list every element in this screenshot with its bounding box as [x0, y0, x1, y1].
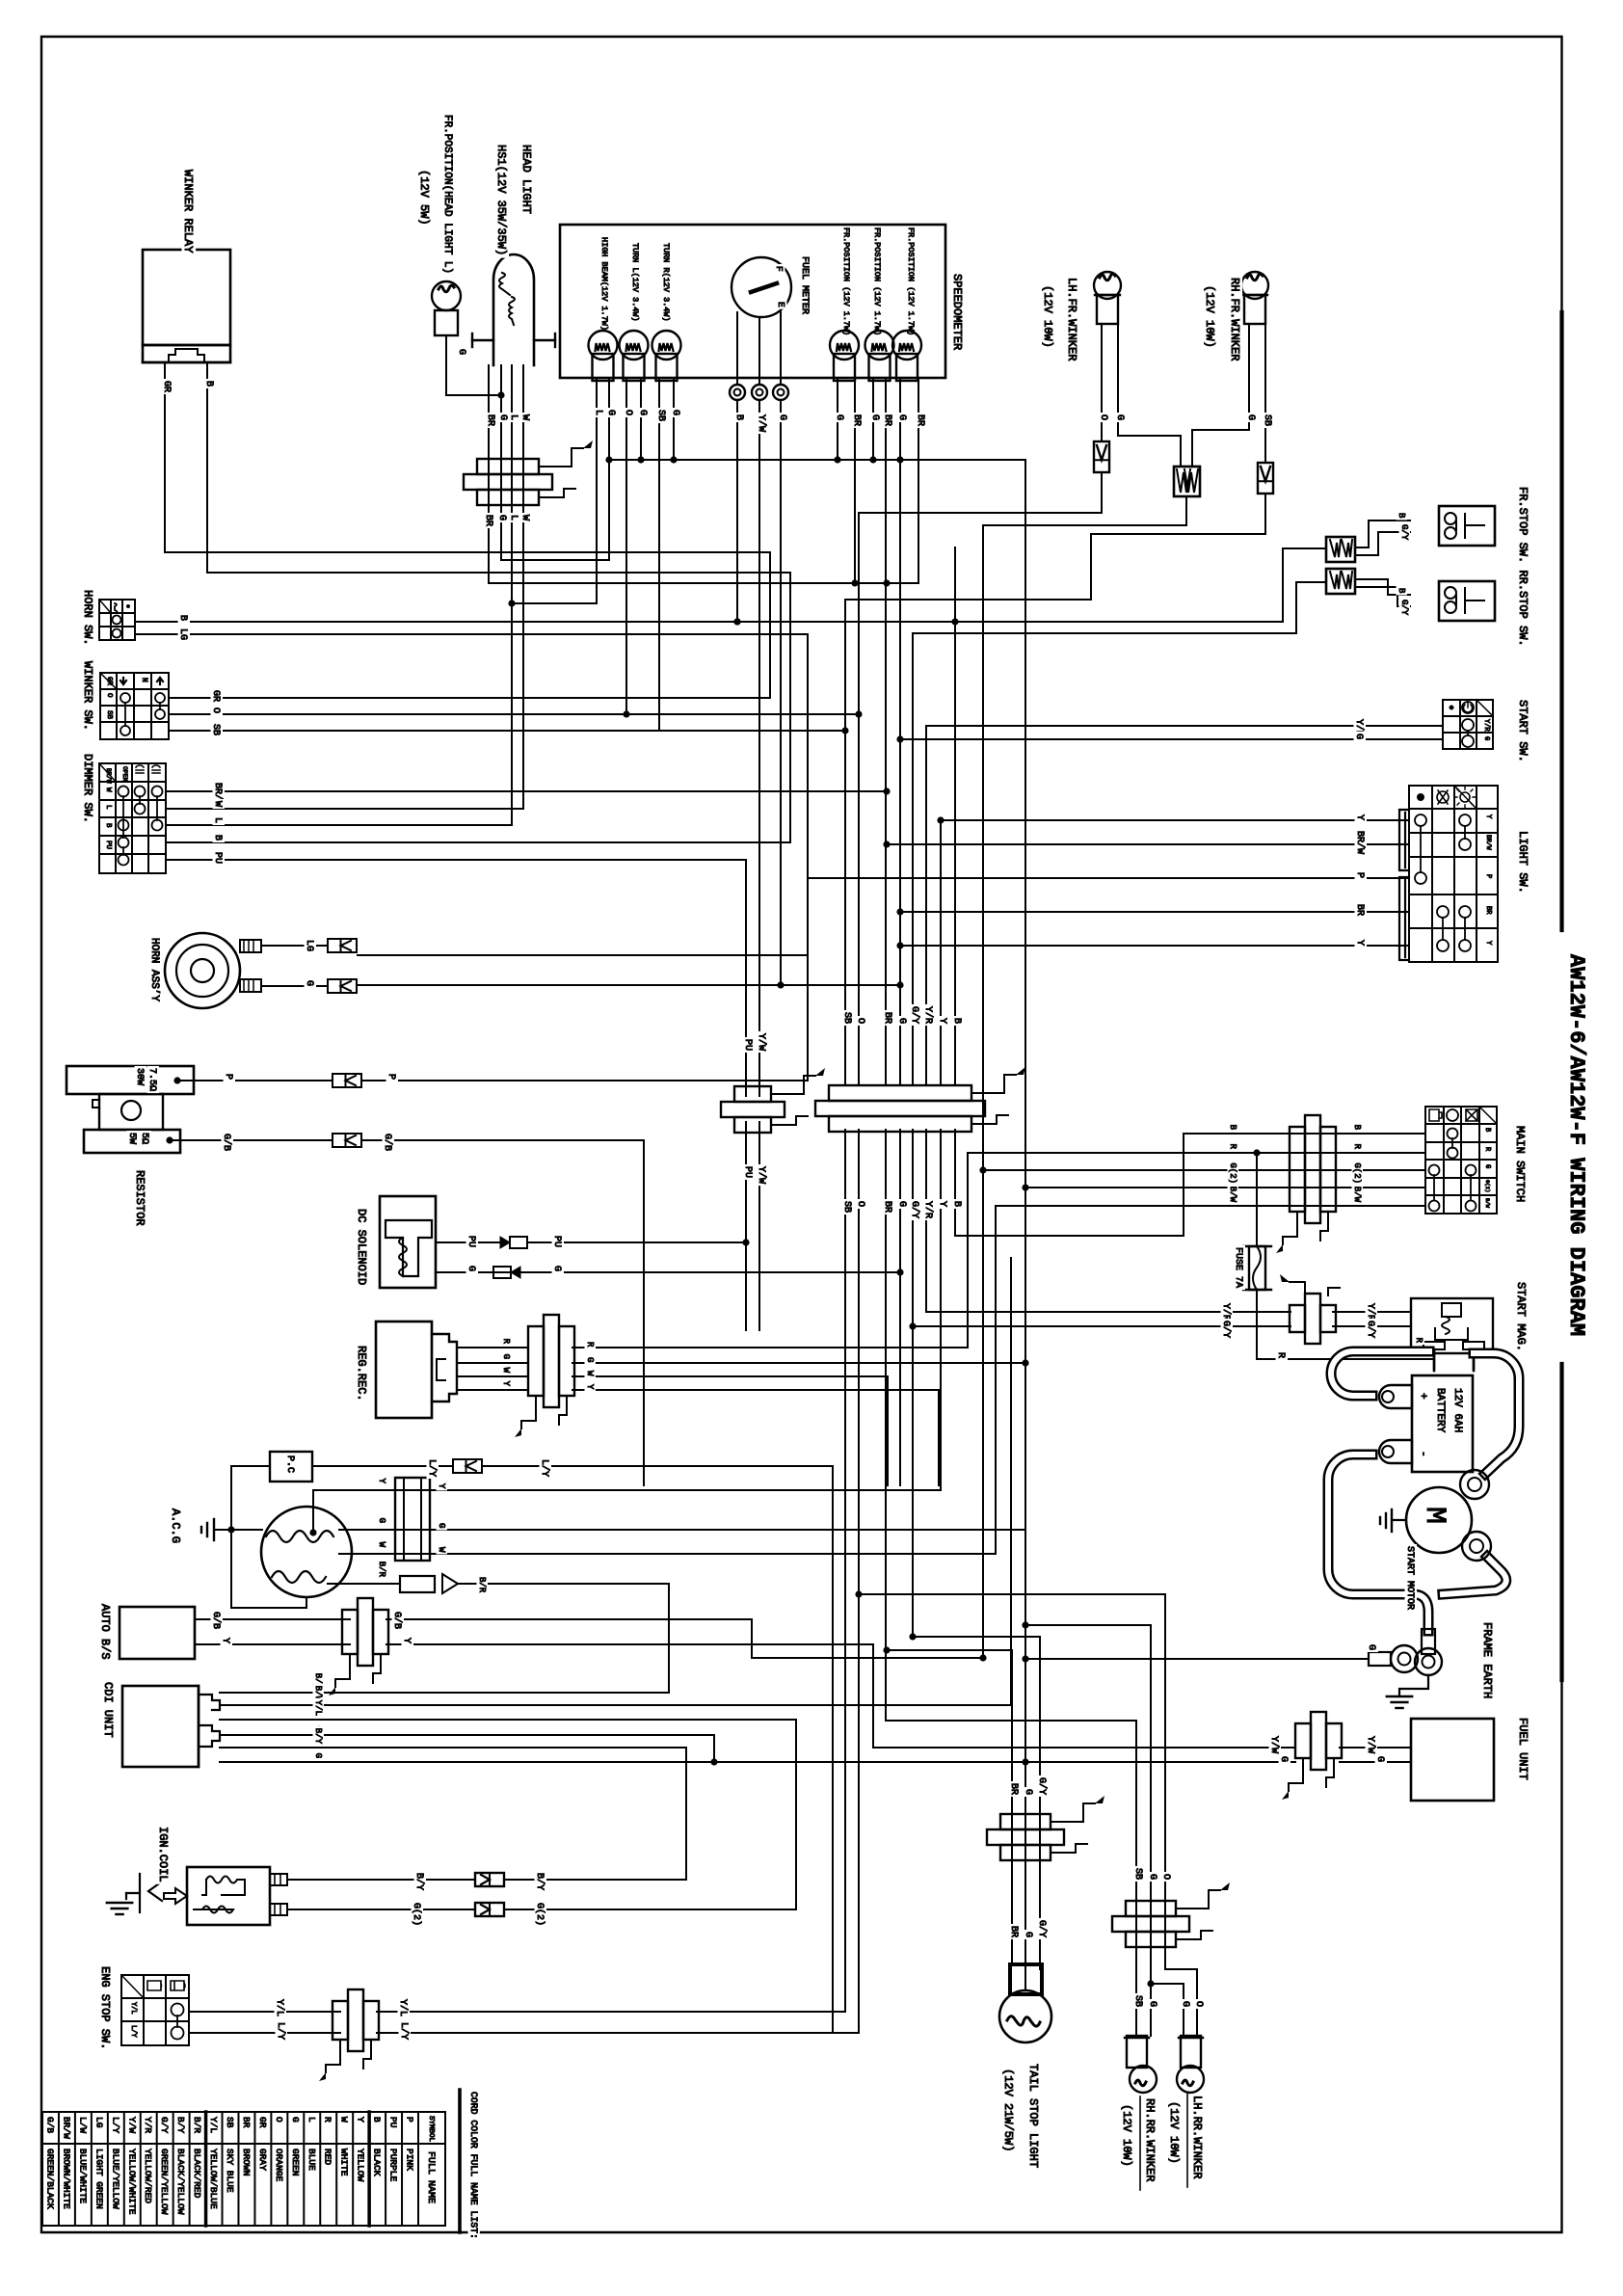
svg-text:(12V 10W): (12V 10W) — [1167, 2101, 1181, 2164]
svg-text:O: O — [1098, 414, 1108, 420]
svg-text:G: G — [1374, 1756, 1385, 1762]
reg rec output wires — [572, 1347, 968, 1348]
svg-text:O: O — [855, 1201, 865, 1207]
wire G from fr position bulb — [446, 335, 501, 395]
svg-text:Y/R: Y/R — [1482, 719, 1490, 732]
eng stop connector — [333, 2001, 348, 2040]
svg-text:CORD COLOR FULL NAME LIST:: CORD COLOR FULL NAME LIST: — [468, 2092, 479, 2239]
start mag wires Y/R G/Y — [926, 1311, 1290, 1313]
svg-text:P: P — [1354, 872, 1365, 878]
svg-text:L/W: L/W — [77, 2117, 88, 2133]
svg-text:G: G — [896, 414, 907, 420]
svg-text:G: G — [1482, 736, 1490, 740]
svg-text:B: B — [212, 835, 223, 841]
svg-text:SB: SB — [210, 724, 221, 735]
svg-text:Y: Y — [356, 2117, 366, 2122]
svg-text:O: O — [210, 707, 221, 713]
svg-text:B: B — [1397, 588, 1406, 594]
auto b/s connector — [342, 1610, 358, 1654]
wire PU vertical — [745, 860, 747, 1096]
svg-text:START MOTOR: START MOTOR — [1404, 1546, 1415, 1610]
reg rec connector — [528, 1326, 544, 1396]
rr winker connector — [1126, 1901, 1176, 1916]
svg-text:Y/L: Y/L — [129, 2002, 137, 2015]
svg-text:FR.POSITION (12V 1.7W): FR.POSITION (12V 1.7W) — [906, 227, 916, 335]
fuel meter — [732, 257, 791, 317]
svg-text:GREEN: GREEN — [290, 2149, 301, 2176]
svg-text:Y/W: Y/W — [126, 2117, 137, 2133]
svg-text:O: O — [623, 410, 633, 415]
svg-text:G/Y: G/Y — [909, 1201, 920, 1218]
svg-text:BLACK/YELLOW: BLACK/YELLOW — [175, 2149, 186, 2215]
wire B from winker relay — [207, 362, 790, 842]
wire L from high beam bulb — [512, 378, 597, 603]
acg connector — [395, 1478, 430, 1561]
svg-text:G: G — [1023, 1932, 1033, 1937]
svg-text:B/R: B/R — [192, 2117, 202, 2133]
svg-text:W: W — [501, 1368, 511, 1374]
svg-text:B: B — [1228, 1125, 1237, 1131]
svg-text:L/Y: L/Y — [275, 2022, 286, 2040]
horn switch grid — [99, 599, 135, 601]
svg-text:G: G — [551, 1266, 562, 1271]
svg-text:W: W — [519, 414, 530, 420]
svg-text:Y/R: Y/R — [1220, 1303, 1232, 1321]
start mag terminals — [1423, 1342, 1445, 1349]
svg-text:G/B: G/B — [44, 2117, 55, 2133]
horn ass'y — [165, 933, 240, 1008]
svg-text:A.C.G: A.C.G — [169, 1508, 182, 1543]
svg-text:DC SOLENOID: DC SOLENOID — [355, 1209, 368, 1285]
ign coil ground — [139, 1874, 141, 1912]
svg-text:Y/W: Y/W — [1365, 1736, 1376, 1753]
svg-text:B: B — [177, 615, 188, 621]
svg-text:R: R — [1352, 1144, 1362, 1150]
acg circle — [261, 1507, 352, 1597]
battery 12V 6AH — [1412, 1375, 1473, 1472]
svg-text:PU: PU — [388, 2117, 399, 2128]
svg-text:12V 6AH: 12V 6AH — [1451, 1388, 1463, 1432]
svg-text:PU: PU — [742, 1039, 753, 1051]
svg-text:G: G — [1278, 1756, 1289, 1762]
svg-text:WHITE: WHITE — [339, 2149, 350, 2176]
svg-text:G: G — [501, 1354, 511, 1359]
fuel unit wires — [873, 1747, 1295, 1749]
svg-text:G: G — [777, 414, 787, 420]
svg-text:N: N — [140, 678, 148, 682]
svg-text:W: W — [519, 515, 530, 521]
svg-text:MAIN SWITCH: MAIN SWITCH — [1513, 1126, 1527, 1202]
cord color full name list table — [42, 2111, 445, 2113]
svg-text:(12V 10W): (12V 10W) — [1203, 285, 1216, 348]
svg-text:G(2): G(2) — [411, 1903, 422, 1926]
svg-text:TURN R(12V 3.4W): TURN R(12V 3.4W) — [661, 243, 671, 322]
svg-text:O: O — [274, 2117, 284, 2122]
svg-text:B/W: B/W — [1228, 1187, 1237, 1203]
svg-text:5W: 5W — [126, 1133, 137, 1144]
svg-text:G/Y: G/Y — [1399, 524, 1409, 541]
svg-text:Y/W: Y/W — [756, 1033, 767, 1051]
dc solenoid wire PU — [436, 1241, 500, 1243]
RR stop sw box — [1439, 581, 1495, 621]
svg-text:L: L — [508, 515, 519, 521]
fuse 7A — [1253, 1149, 1260, 1156]
svg-text:R: R — [1275, 1352, 1286, 1358]
head light flange — [472, 339, 493, 341]
svg-text:L/Y: L/Y — [110, 2117, 120, 2133]
svg-text:SKY BLUE: SKY BLUE — [225, 2149, 235, 2193]
svg-text:Y: Y — [1354, 940, 1365, 946]
main harness connector — [829, 1085, 971, 1101]
svg-text:G: G — [313, 1753, 323, 1758]
battery positive lug — [1379, 1385, 1412, 1408]
svg-text:AW12W-6/AW12W-F WIRING DIAGRAM: AW12W-6/AW12W-F WIRING DIAGRAM — [1564, 954, 1588, 1336]
eng stop wires — [189, 2011, 340, 2013]
svg-text:(12V 5W): (12V 5W) — [417, 170, 431, 226]
below connector — [1135, 1938, 1137, 2036]
LH FR winker bulb — [1094, 272, 1121, 299]
head light bulb HS1 — [493, 254, 534, 365]
acg frame link — [231, 1530, 306, 1608]
svg-text:REG.REC.: REG.REC. — [355, 1346, 368, 1402]
svg-text:R: R — [1414, 1338, 1423, 1344]
svg-text:Y: Y — [937, 1201, 947, 1207]
svg-text:Y/W: Y/W — [756, 414, 767, 432]
svg-text:(12V 10W): (12V 10W) — [1120, 2104, 1133, 2167]
svg-text:G: G — [637, 410, 648, 415]
svg-text:BR: BR — [1008, 1926, 1019, 1937]
cable motor lower ring to frame earth — [1443, 1557, 1506, 1594]
start mag box — [1411, 1298, 1493, 1353]
svg-text:BR: BR — [241, 2117, 252, 2128]
LH RR winker bulb — [1181, 2036, 1201, 2068]
svg-text:B: B — [372, 2117, 383, 2122]
wire O turn L — [625, 378, 627, 714]
svg-text:Y/L: Y/L — [274, 1999, 285, 2016]
svg-text:YELLOW/BLUE: YELLOW/BLUE — [208, 2149, 219, 2209]
svg-text:G: G — [456, 349, 466, 355]
wire GR from winker relay — [165, 362, 770, 698]
svg-text:BR: BR — [1008, 1783, 1019, 1795]
svg-text:R: R — [323, 2117, 333, 2122]
svg-text:G: G — [1180, 2001, 1190, 2007]
svg-text:G: G — [1114, 414, 1125, 420]
svg-text:G/Y: G/Y — [1220, 1321, 1232, 1338]
svg-text:G: G — [466, 1266, 476, 1271]
svg-text:SB: SB — [1132, 1995, 1143, 2007]
svg-text:PINK: PINK — [405, 2149, 415, 2171]
title flank bars — [1559, 312, 1563, 930]
svg-text:BLUE/WHITE: BLUE/WHITE — [77, 2149, 88, 2203]
svg-text:Y/L: Y/L — [208, 2117, 219, 2133]
svg-text:W: W — [585, 1371, 595, 1376]
main switch wires — [1195, 1133, 1425, 1135]
svg-text:R: R — [585, 1342, 595, 1348]
svg-text:BATTERY: BATTERY — [1434, 1388, 1446, 1433]
svg-text:PURPLE: PURPLE — [388, 2149, 399, 2182]
wire G horn — [261, 985, 328, 987]
wire LG from horn sw — [135, 634, 808, 955]
svg-text:GREEN/BLACK: GREEN/BLACK — [44, 2149, 55, 2209]
cdi wires — [220, 1584, 669, 1693]
wire BR/W to light sw — [887, 843, 1409, 845]
svg-text:P: P — [1484, 874, 1492, 878]
winker switch grid — [100, 672, 169, 674]
svg-text:Y: Y — [937, 1018, 947, 1024]
svg-text:G(2): G(2) — [534, 1903, 545, 1926]
svg-text:SB: SB — [1132, 1868, 1143, 1880]
double bullet connector G winkers — [1174, 467, 1200, 496]
svg-text:PU: PU — [212, 852, 223, 864]
svg-text:G/Y: G/Y — [1036, 1920, 1048, 1937]
svg-text:IGN.COIL: IGN.COIL — [156, 1827, 170, 1882]
svg-text:WINKER RELAY: WINKER RELAY — [181, 170, 195, 253]
svg-text:-: - — [1417, 1451, 1428, 1457]
svg-text:F: F — [774, 266, 785, 272]
heavy separators in table — [367, 2112, 371, 2226]
svg-text:Y/W: Y/W — [756, 1166, 767, 1184]
light sw bracket connectors — [1399, 810, 1409, 870]
svg-text:Y: Y — [437, 1483, 446, 1489]
svg-text:G/B: G/B — [391, 1612, 403, 1629]
svg-text:START MAG.: START MAG. — [1514, 1282, 1528, 1351]
main switch feed elbows — [955, 1134, 1195, 1236]
fuel meter wires B YW G — [736, 400, 738, 622]
start mag connector — [1290, 1305, 1305, 1332]
svg-text:BROWN/WHITE: BROWN/WHITE — [61, 2149, 71, 2209]
svg-text:OPEN: OPEN — [121, 766, 128, 782]
start mag coil — [1442, 1303, 1461, 1317]
svg-text:RED: RED — [323, 2149, 333, 2165]
svg-text:BR: BR — [882, 414, 892, 426]
resistor body — [99, 1094, 163, 1130]
svg-text:SB: SB — [105, 710, 113, 720]
svg-text:FR.POSITION (12V 1.7W): FR.POSITION (12V 1.7W) — [841, 227, 851, 335]
svg-text:YELLOW/WHITE: YELLOW/WHITE — [126, 2149, 137, 2215]
svg-text:BR/W: BR/W — [105, 768, 112, 784]
svg-text:G: G — [496, 515, 507, 521]
wire G from LH FR winker — [1118, 324, 1181, 467]
svg-text:BR: BR — [882, 1201, 892, 1213]
wire G(2) — [287, 1909, 475, 1910]
label LH.RR.WINKER (12V 10W) — [1186, 2094, 1188, 2187]
wire G to bus — [983, 497, 1186, 1658]
cdi unit box — [122, 1686, 199, 1767]
svg-text:FR.POSITION (12V 1.7W): FR.POSITION (12V 1.7W) — [872, 227, 882, 335]
wire SB turn R — [658, 378, 660, 731]
svg-text:SB: SB — [841, 1201, 852, 1213]
fuel unit box — [1411, 1719, 1494, 1801]
svg-text:W: W — [339, 2117, 350, 2122]
svg-text:G: G — [437, 1523, 446, 1528]
battery cable negative to frame earth — [1328, 1455, 1428, 1631]
wire R from fuse to start mag — [1257, 1290, 1434, 1359]
svg-text:PU: PU — [742, 1166, 753, 1178]
indicator bulbs in speedometer — [589, 331, 618, 360]
dc solenoid wire G — [436, 1271, 510, 1273]
winker relay — [143, 250, 230, 345]
svg-text:G/Y: G/Y — [1365, 1321, 1376, 1338]
svg-text:G: G — [1483, 1164, 1491, 1168]
wire G turn L — [640, 378, 642, 460]
wire Y/R to start sw — [926, 725, 1443, 727]
svg-text:G/B: G/B — [221, 1134, 232, 1151]
auto b/s box — [120, 1607, 195, 1659]
svg-text:FULL NAME: FULL NAME — [425, 2151, 436, 2203]
wire Y2 to light sw — [900, 945, 1409, 947]
tail stop bulb — [1010, 1964, 1042, 1994]
svg-text:B: B — [1483, 1128, 1491, 1132]
wire Y to light sw — [941, 819, 1409, 821]
svg-text:BR: BR — [483, 515, 493, 526]
svg-text:BR: BR — [915, 414, 925, 426]
svg-text:LIGHT SW.: LIGHT SW. — [1516, 831, 1530, 894]
RH FR winker bulb — [1241, 272, 1268, 299]
wire G turn R — [673, 378, 675, 460]
frame earth ground — [1399, 1675, 1428, 1696]
tail light connector — [1000, 1814, 1051, 1829]
svg-text:BR: BR — [485, 414, 495, 426]
svg-text:G: G — [605, 410, 616, 415]
svg-text:LG: LG — [177, 628, 188, 640]
acg wires Y G W — [309, 1529, 316, 1535]
svg-text:5Ω: 5Ω — [139, 1133, 149, 1144]
svg-text:B: B — [951, 1018, 962, 1024]
speedometer box — [560, 225, 945, 378]
svg-text:FRAME EARTH: FRAME EARTH — [1480, 1622, 1494, 1698]
svg-text:SB: SB — [841, 1012, 852, 1024]
svg-text:B/Y: B/Y — [313, 1728, 323, 1745]
svg-text:SYMBOL: SYMBOL — [427, 2116, 435, 2143]
svg-text:G: G — [1366, 1644, 1376, 1650]
svg-text:R: R — [1228, 1144, 1237, 1150]
svg-text:PU: PU — [104, 841, 112, 849]
svg-text:SPEEDOMETER: SPEEDOMETER — [950, 274, 964, 350]
svg-text:HS1(12V 35W/35W): HS1(12V 35W/35W) — [494, 145, 508, 255]
svg-text:Y/W: Y/W — [1268, 1736, 1280, 1753]
svg-text:G: G — [377, 1518, 386, 1523]
svg-text:Y/R: Y/R — [922, 1006, 934, 1024]
svg-text:LH.RR.WINKER: LH.RR.WINKER — [1190, 2096, 1204, 2178]
svg-text:B: B — [733, 414, 744, 420]
dc solenoid box — [380, 1196, 436, 1288]
svg-text:BLUE: BLUE — [306, 2149, 317, 2171]
battery cable from bolt2 to motor upper ring — [1474, 1353, 1519, 1474]
frame earth rings — [1422, 1629, 1435, 1654]
reg rec wires R G W Y — [457, 1347, 528, 1348]
acg wire B/R — [328, 1583, 400, 1585]
svg-text:Y/R: Y/R — [922, 1201, 934, 1218]
svg-text:G/Y: G/Y — [1036, 1777, 1048, 1795]
wire L/Y from PC — [312, 1465, 453, 1467]
head light connector — [477, 459, 539, 474]
svg-text:W: W — [437, 1547, 446, 1553]
svg-text:P: P — [386, 1074, 396, 1080]
svg-text:L: L — [593, 410, 603, 415]
svg-text:GR: GR — [161, 381, 172, 392]
svg-text:G: G — [834, 414, 844, 420]
resistor 30W 7.5ohm — [67, 1066, 194, 1094]
dimmer switch grid — [99, 762, 166, 764]
svg-text:L/Y: L/Y — [398, 2022, 410, 2040]
svg-text:GR: GR — [257, 2117, 268, 2128]
svg-text:Y: Y — [401, 1638, 412, 1643]
svg-text:L: L — [212, 817, 223, 823]
svg-text:GRAY: GRAY — [257, 2149, 268, 2171]
svg-text:B: B — [104, 823, 112, 828]
svg-text:G/Y: G/Y — [159, 2117, 170, 2133]
rr winker wires down — [887, 1721, 1136, 1938]
svg-text:LH.FR.WINKER: LH.FR.WINKER — [1065, 278, 1078, 360]
RH RR winker bulb — [1127, 2036, 1147, 2068]
svg-text:RH.FR.WINKER: RH.FR.WINKER — [1228, 278, 1241, 360]
svg-text:G: G — [497, 414, 508, 420]
FR stop sw box — [1439, 506, 1495, 546]
motor upper ring terminal — [1460, 1470, 1489, 1499]
BR merge dots — [851, 579, 858, 586]
svg-text:(12V 21W/5W): (12V 21W/5W) — [1001, 2069, 1015, 2151]
svg-text:WINKER SW.: WINKER SW. — [81, 661, 94, 731]
fr position bulb wires G BR pairs — [837, 378, 838, 460]
svg-text:FUEL METER: FUEL METER — [799, 256, 810, 314]
ign coil terminals — [270, 1874, 287, 1885]
svg-text:G: G — [1023, 1789, 1033, 1795]
svg-text:M: M — [1418, 1507, 1450, 1524]
reg rec box — [376, 1322, 432, 1418]
svg-text:L/Y: L/Y — [539, 1459, 550, 1477]
dimmer wires BR/W W L B PU — [166, 790, 887, 792]
svg-text:SB: SB — [225, 2117, 235, 2128]
svg-text:P.C: P.C — [284, 1455, 295, 1473]
svg-text:SB: SB — [1262, 414, 1272, 426]
svg-text:Y: Y — [220, 1638, 230, 1643]
wire G high beam — [608, 378, 610, 560]
fuel unit connector — [1295, 1723, 1311, 1758]
head light wires BR G L W — [488, 365, 490, 583]
svg-text:START SW.: START SW. — [1516, 700, 1530, 762]
bus verticals through connector — [844, 600, 846, 1085]
wire P from resistor — [173, 1077, 180, 1083]
svg-text:G(2): G(2) — [1228, 1162, 1237, 1184]
svg-text:B/Y: B/Y — [175, 2117, 186, 2133]
svg-text:L: L — [508, 414, 519, 420]
svg-text:G: G — [290, 2117, 301, 2122]
P.C pulse coil box — [270, 1452, 312, 1482]
svg-text:O: O — [855, 1018, 865, 1024]
svg-text:SB: SB — [655, 410, 666, 421]
svg-text:LG: LG — [304, 940, 314, 951]
svg-text:RESISTOR: RESISTOR — [133, 1170, 146, 1226]
battery negative lug — [1379, 1440, 1412, 1463]
svg-text:BLUE/YELLOW: BLUE/YELLOW — [110, 2149, 120, 2209]
svg-text:B: B — [1397, 513, 1406, 519]
wire G/B from resistor — [166, 1136, 173, 1143]
svg-text:GREEN/YELLOW: GREEN/YELLOW — [159, 2149, 170, 2215]
svg-text:G/B: G/B — [210, 1612, 222, 1629]
svg-text:RH.RR.WINKER: RH.RR.WINKER — [1143, 2098, 1157, 2181]
wire B from horn sw — [135, 548, 1326, 622]
tail stop light wires down — [887, 1650, 1012, 1964]
svg-text:GR: GR — [210, 690, 221, 702]
svg-text:G/Y: G/Y — [1399, 600, 1409, 616]
svg-text:G: G — [585, 1357, 595, 1362]
wires from connectors to stop boxes — [1355, 521, 1410, 547]
svg-text:LIGHT GREEN: LIGHT GREEN — [93, 2149, 104, 2209]
wire P to light sw — [807, 878, 809, 1081]
auto b/s wires — [195, 1618, 350, 1620]
svg-text:O: O — [1193, 2001, 1204, 2007]
fr position bulb (12V 5W) — [432, 281, 461, 310]
